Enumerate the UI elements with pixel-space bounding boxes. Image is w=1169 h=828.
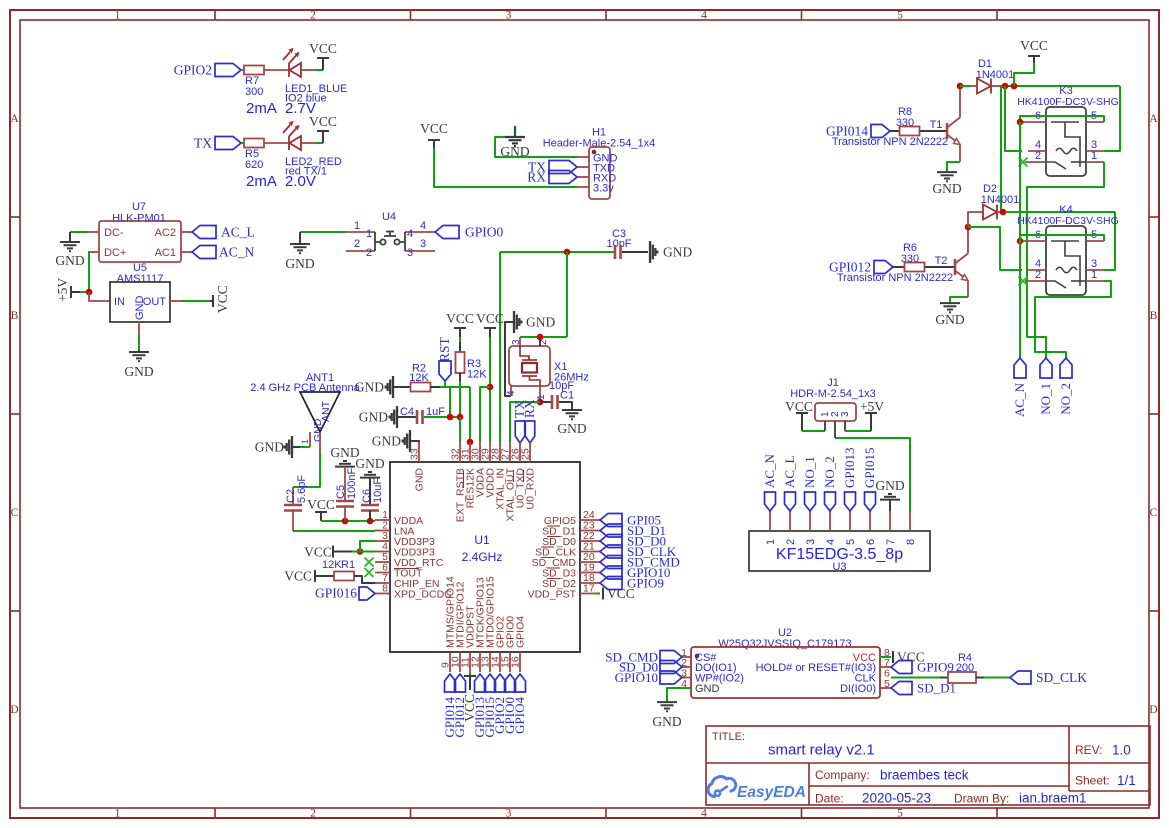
svg-text:W25Q32JVSSIQ_C179173: W25Q32JVSSIQ_C179173 bbox=[718, 638, 851, 650]
wire bbox=[293, 446, 300, 448]
svg-text:1/1: 1/1 bbox=[1117, 773, 1136, 788]
junction bbox=[367, 518, 374, 525]
svg-text:4: 4 bbox=[701, 10, 707, 22]
crystal X1 bbox=[509, 346, 550, 386]
junction bbox=[86, 289, 93, 296]
wire bbox=[398, 416, 417, 418]
LED LED2_RED bbox=[283, 122, 301, 150]
junction bbox=[537, 399, 544, 406]
wire R2 row bbox=[440, 386, 470, 388]
power VCC U2 bbox=[892, 651, 894, 663]
svg-text:5: 5 bbox=[897, 10, 903, 22]
wire VDDA row bbox=[321, 520, 375, 522]
svg-text:3: 3 bbox=[506, 808, 512, 820]
svg-text:GPIO4: GPIO4 bbox=[512, 697, 527, 734]
wire K3 pin1 to NO_1 bbox=[1027, 162, 1104, 358]
svg-text:C: C bbox=[1150, 507, 1158, 519]
wire collector T2 bbox=[967, 227, 969, 254]
svg-text:1N4001: 1N4001 bbox=[981, 194, 1020, 206]
wire bbox=[89, 292, 110, 301]
transistor T2 bbox=[955, 254, 968, 281]
wire bbox=[1014, 63, 1034, 86]
svg-text:1: 1 bbox=[115, 808, 121, 820]
svg-text:VCC: VCC bbox=[462, 694, 477, 722]
wire RST node down bbox=[449, 387, 451, 417]
svg-text:REV:: REV: bbox=[1075, 743, 1103, 757]
wire bbox=[411, 441, 419, 443]
svg-text:1: 1 bbox=[1091, 269, 1097, 281]
svg-text:GND: GND bbox=[355, 456, 384, 471]
svg-text:1: 1 bbox=[354, 220, 360, 232]
U1 bottom pin stubs bbox=[450, 652, 520, 672]
net flag GPIO0 bbox=[505, 674, 516, 692]
svg-text:U4: U4 bbox=[382, 211, 396, 223]
wire bbox=[424, 416, 460, 418]
U1 top pin stubs bbox=[419, 442, 530, 462]
wire bbox=[845, 430, 871, 432]
svg-text:1: 1 bbox=[115, 10, 121, 22]
junction bbox=[467, 439, 474, 446]
wire bbox=[489, 337, 491, 442]
svg-text:U0_RXD: U0_RXD bbox=[525, 468, 537, 510]
svg-text:GND: GND bbox=[414, 468, 426, 492]
svg-text:1: 1 bbox=[300, 439, 310, 444]
wire bbox=[925, 266, 955, 268]
wire D2 row bbox=[1005, 211, 1115, 213]
wire J1 pin2 to U3 pin8 bbox=[835, 438, 910, 512]
svg-text:5: 5 bbox=[845, 539, 857, 545]
net flag GPI013 bbox=[845, 492, 856, 511]
svg-text:4: 4 bbox=[506, 390, 517, 396]
junction bbox=[1017, 119, 1024, 126]
svg-text:+5V: +5V bbox=[55, 278, 70, 302]
power VCC bbox=[210, 300, 213, 302]
wire bbox=[505, 322, 513, 396]
svg-text:A: A bbox=[10, 113, 19, 125]
svg-text:3: 3 bbox=[805, 539, 817, 545]
crystal internals bbox=[520, 346, 540, 386]
svg-text:10uF: 10uF bbox=[372, 478, 384, 503]
svg-text:AC_N: AC_N bbox=[1012, 382, 1027, 417]
net flag GPI05 bbox=[600, 514, 622, 527]
svg-text:AMS1117: AMS1117 bbox=[117, 273, 164, 285]
wire DC+ to +5V node bbox=[88, 252, 89, 292]
wire bbox=[394, 386, 411, 388]
wire AC_N vertical bbox=[1019, 122, 1021, 358]
svg-text:Company:: Company: bbox=[815, 768, 870, 782]
net flag GPIO4 bbox=[515, 674, 526, 692]
svg-text:GND: GND bbox=[359, 410, 388, 425]
IC U7 HLK-PM01 bbox=[99, 221, 181, 262]
junction bbox=[357, 548, 364, 555]
wire bbox=[301, 69, 315, 71]
svg-text:EasyEDA: EasyEDA bbox=[737, 784, 806, 801]
wire bbox=[459, 373, 461, 381]
junction bbox=[1000, 209, 1007, 216]
wire bbox=[301, 142, 315, 144]
net flag GPI014 bbox=[445, 674, 456, 692]
wire bbox=[559, 402, 572, 408]
svg-text:R1: R1 bbox=[341, 559, 355, 571]
wire U2 VCC bbox=[880, 656, 891, 658]
power VCC VDD_PST bbox=[595, 593, 600, 595]
wire bbox=[241, 142, 244, 144]
wire bbox=[354, 576, 375, 583]
svg-text:D: D bbox=[10, 704, 18, 716]
overline marks U1 pin names bbox=[394, 470, 560, 579]
ground bbox=[60, 232, 80, 251]
junction bbox=[342, 518, 349, 525]
svg-text:2: 2 bbox=[1035, 269, 1041, 281]
net flag AC_N bbox=[765, 492, 776, 511]
wire collector T1 bbox=[959, 86, 961, 118]
net flag GPI015 bbox=[865, 492, 876, 511]
svg-text:25: 25 bbox=[520, 448, 532, 460]
wire bbox=[181, 300, 210, 302]
svg-text:2.4GHz: 2.4GHz bbox=[462, 550, 503, 564]
wire ANT to C2/LNA bbox=[293, 451, 320, 487]
junction bbox=[457, 414, 464, 421]
junction bbox=[487, 384, 494, 391]
svg-text:GND: GND bbox=[55, 253, 84, 268]
svg-text:12K: 12K bbox=[467, 369, 487, 381]
svg-text:U1: U1 bbox=[474, 533, 490, 547]
net flag SD_D1 bbox=[600, 524, 622, 537]
svg-text:17: 17 bbox=[583, 583, 595, 595]
U1 right pin stubs bbox=[580, 520, 600, 594]
pin stub OUT bbox=[170, 300, 181, 302]
wire bbox=[80, 291, 89, 293]
pin stubs U7 bbox=[88, 232, 192, 252]
svg-text:6: 6 bbox=[865, 539, 877, 545]
resistor R7 bbox=[244, 66, 264, 75]
net flag SD_D1 bbox=[891, 682, 912, 695]
net flag NO_1 bbox=[805, 492, 816, 511]
wire bbox=[893, 266, 904, 268]
svg-text:3: 3 bbox=[407, 247, 413, 259]
net flag NO_2 bbox=[1060, 358, 1072, 378]
svg-text:AC_N: AC_N bbox=[219, 245, 255, 260]
net flag NO_1 bbox=[1040, 358, 1052, 378]
ground T2 bbox=[940, 303, 960, 312]
svg-text:GND: GND bbox=[875, 478, 904, 493]
svg-text:AC_L: AC_L bbox=[782, 455, 797, 488]
svg-text:12K: 12K bbox=[322, 559, 342, 571]
junction bbox=[1011, 83, 1018, 90]
net flag GPIO2 bbox=[495, 674, 506, 692]
ground bbox=[650, 241, 657, 263]
no-connect X K3 pin2 bbox=[1019, 158, 1028, 167]
ground bbox=[360, 472, 380, 478]
ground crystal case bbox=[514, 311, 521, 333]
wire bbox=[976, 677, 984, 679]
svg-text:ANT: ANT bbox=[320, 400, 332, 422]
ground bbox=[335, 461, 355, 467]
net flag GPIO0 bbox=[435, 226, 459, 239]
net flag GPIO9 bbox=[600, 577, 622, 590]
svg-text:AC_L: AC_L bbox=[221, 225, 255, 240]
svg-text:GND: GND bbox=[663, 245, 692, 260]
svg-text:1: 1 bbox=[366, 228, 372, 240]
svg-text:RX: RX bbox=[527, 170, 546, 185]
svg-text:3.3v: 3.3v bbox=[593, 183, 614, 195]
wire to pin32 bbox=[459, 417, 461, 442]
wire K3 coil right bbox=[1104, 86, 1120, 151]
U2 pin stubs right bbox=[880, 667, 891, 688]
svg-text:2: 2 bbox=[366, 247, 372, 259]
svg-text:C1: C1 bbox=[560, 390, 574, 402]
svg-text:VCC: VCC bbox=[215, 285, 230, 313]
net flag GPI013 bbox=[475, 674, 486, 692]
svg-text:C4: C4 bbox=[400, 406, 414, 418]
svg-text:100nF: 100nF bbox=[346, 468, 358, 499]
wire bbox=[802, 430, 825, 432]
svg-text:Date:: Date: bbox=[815, 792, 844, 806]
U1 left pin stubs bbox=[375, 520, 390, 594]
IC U1 2.4GHz bbox=[390, 462, 580, 652]
junction bbox=[1017, 238, 1024, 245]
junction bbox=[564, 249, 571, 256]
svg-text:GPI016: GPI016 bbox=[315, 586, 357, 601]
svg-text:VCC: VCC bbox=[1020, 38, 1048, 53]
ground bbox=[129, 350, 149, 361]
net flag AC_L bbox=[192, 226, 216, 239]
wire T2 to K4 coil left bbox=[968, 227, 1022, 270]
svg-text:TITLE:: TITLE: bbox=[712, 731, 745, 743]
junction bbox=[537, 334, 544, 341]
svg-text:NO_2: NO_2 bbox=[1058, 383, 1073, 415]
svg-text:GND: GND bbox=[355, 380, 384, 395]
svg-text:VCC: VCC bbox=[785, 399, 813, 414]
wire bbox=[315, 142, 323, 144]
svg-text:2.0V: 2.0V bbox=[285, 173, 316, 190]
svg-text:620: 620 bbox=[245, 159, 263, 171]
svg-text:VCC: VCC bbox=[476, 311, 504, 326]
wire bbox=[947, 162, 960, 172]
svg-text:RX: RX bbox=[522, 399, 537, 418]
net flag AC_N bbox=[192, 246, 216, 259]
svg-text:3: 3 bbox=[506, 10, 512, 22]
svg-text:braembes teck: braembes teck bbox=[880, 768, 969, 783]
svg-text:GND: GND bbox=[134, 296, 146, 321]
wire bbox=[430, 386, 440, 388]
svg-text:GND: GND bbox=[255, 440, 284, 455]
svg-text:GND: GND bbox=[285, 256, 314, 271]
svg-text:D: D bbox=[1149, 704, 1157, 716]
svg-text:2mA: 2mA bbox=[246, 173, 277, 190]
svg-text:2: 2 bbox=[785, 539, 797, 545]
resistor R5 bbox=[244, 139, 264, 148]
wire crystal top bbox=[520, 336, 567, 338]
svg-text:XPD_DCDC: XPD_DCDC bbox=[394, 589, 452, 601]
wire bbox=[968, 212, 983, 227]
svg-text:4: 4 bbox=[420, 220, 426, 232]
svg-text:VCC: VCC bbox=[420, 121, 448, 136]
wire bbox=[264, 69, 288, 71]
wire C3 node down to crystal bbox=[566, 252, 568, 337]
net flag NO_2 bbox=[825, 492, 836, 511]
svg-text:AC1: AC1 bbox=[155, 247, 176, 259]
wire bbox=[495, 137, 577, 157]
wire bbox=[960, 85, 971, 87]
svg-text:C: C bbox=[11, 507, 19, 519]
svg-text:Transistor NPN 2N2222: Transistor NPN 2N2222 bbox=[837, 272, 953, 284]
svg-text:GND: GND bbox=[935, 312, 964, 327]
svg-text:7: 7 bbox=[885, 539, 897, 545]
J1 pin stubs bbox=[825, 421, 845, 438]
svg-text:3: 3 bbox=[420, 238, 426, 250]
svg-text:+5V: +5V bbox=[860, 399, 884, 414]
junction bbox=[957, 83, 964, 90]
wire bbox=[622, 251, 648, 253]
svg-text:NO_1: NO_1 bbox=[802, 456, 817, 488]
svg-text:DC+: DC+ bbox=[104, 247, 126, 259]
svg-text:1: 1 bbox=[1091, 150, 1097, 162]
U3 pin stubs bbox=[770, 511, 910, 531]
wire emitter T1 bbox=[959, 145, 961, 163]
wire bbox=[480, 387, 490, 442]
svg-text:3: 3 bbox=[511, 339, 522, 345]
svg-text:IN: IN bbox=[114, 296, 125, 308]
svg-text:5: 5 bbox=[897, 808, 903, 820]
EasyEDA logo bbox=[708, 777, 736, 797]
wire K3 pin5 loop bbox=[1020, 116, 1104, 122]
svg-text:T1: T1 bbox=[930, 119, 943, 131]
net flag SD_CLK bbox=[1010, 671, 1031, 684]
svg-text:GPIO10: GPIO10 bbox=[615, 670, 658, 685]
wire row to pin31 bbox=[469, 387, 471, 442]
svg-text:GPIO2: GPIO2 bbox=[174, 63, 212, 78]
wire bbox=[950, 297, 968, 303]
net flag GPI015 bbox=[485, 674, 496, 692]
net flag SD_CLK bbox=[600, 545, 622, 558]
svg-text:SD_CLK: SD_CLK bbox=[1036, 670, 1087, 685]
svg-text:1: 1 bbox=[765, 539, 777, 545]
junction bbox=[965, 224, 972, 231]
wire bbox=[300, 231, 346, 233]
no-connect X pin6 bbox=[365, 568, 374, 577]
svg-text:B: B bbox=[11, 310, 19, 322]
net flag SD_D0 bbox=[600, 535, 622, 548]
svg-text:T2: T2 bbox=[935, 255, 948, 267]
IC U5 AMS1117 bbox=[110, 282, 170, 322]
svg-text:AC_N: AC_N bbox=[762, 453, 777, 488]
wire emitter T2 bbox=[967, 281, 969, 298]
junction bbox=[1002, 83, 1009, 90]
svg-text:VCC: VCC bbox=[446, 311, 474, 326]
svg-text:HLK-PM01: HLK-PM01 bbox=[112, 213, 166, 225]
svg-text:GPI013: GPI013 bbox=[842, 448, 857, 488]
wire XTAL_IN to C3 bbox=[500, 251, 614, 253]
svg-text:GPIO0: GPIO0 bbox=[465, 225, 504, 240]
svg-text:2: 2 bbox=[1035, 150, 1041, 162]
wire K4 pin5 loop bbox=[1020, 235, 1104, 241]
junction bbox=[447, 414, 454, 421]
wire CLK to R4 bbox=[891, 677, 940, 679]
transistor T1 bbox=[947, 118, 960, 145]
wire D1 row bbox=[1005, 85, 1120, 87]
svg-text:1N4001: 1N4001 bbox=[976, 69, 1015, 81]
svg-text:U3: U3 bbox=[832, 561, 846, 573]
svg-text:8: 8 bbox=[382, 583, 388, 595]
ground H1 bbox=[514, 126, 516, 137]
svg-text:4: 4 bbox=[825, 539, 837, 545]
svg-text:GND: GND bbox=[526, 315, 555, 330]
svg-text:VCC: VCC bbox=[307, 497, 335, 512]
U2 pin stubs left bbox=[682, 657, 691, 678]
net flag AC_L bbox=[785, 492, 796, 511]
wire bbox=[70, 231, 88, 233]
svg-text:16: 16 bbox=[510, 656, 522, 668]
power VCC pin11 bbox=[469, 672, 471, 676]
wire bbox=[264, 142, 288, 144]
svg-text:Sheet:: Sheet: bbox=[1075, 774, 1110, 788]
wire bbox=[434, 148, 577, 187]
wire bbox=[138, 334, 140, 350]
svg-text:GND: GND bbox=[932, 181, 961, 196]
svg-text:ian.braem1: ian.braem1 bbox=[1019, 791, 1087, 806]
wire bbox=[352, 551, 375, 553]
wire crystal pin1 to XTAL_OUT bbox=[510, 402, 540, 442]
svg-text:2: 2 bbox=[354, 238, 360, 250]
wire K3 coil left bbox=[1005, 86, 1022, 151]
wire C2 to LNA bbox=[293, 530, 375, 532]
wire bbox=[890, 130, 899, 132]
svg-text:B: B bbox=[1150, 310, 1158, 322]
svg-text:NO_1: NO_1 bbox=[1038, 383, 1053, 415]
svg-text:Transistor NPN 2N2222: Transistor NPN 2N2222 bbox=[832, 136, 948, 148]
svg-text:10pF: 10pF bbox=[606, 238, 631, 250]
svg-text:RST: RST bbox=[437, 336, 452, 362]
svg-text:OUT: OUT bbox=[143, 296, 167, 308]
wire bbox=[920, 130, 947, 132]
svg-text:VDD_PST: VDD_PST bbox=[528, 589, 577, 601]
LED LED1_BLUE bbox=[283, 49, 301, 77]
svg-text:2: 2 bbox=[310, 808, 316, 820]
no-connect X pin5 bbox=[365, 558, 374, 567]
no-connect X K4 pin2 bbox=[1019, 277, 1028, 286]
svg-text:8: 8 bbox=[905, 539, 917, 545]
svg-text:GPIO4: GPIO4 bbox=[515, 616, 527, 648]
svg-text:33: 33 bbox=[409, 448, 421, 460]
wire VCC feed down to D2 bbox=[1000, 86, 1002, 212]
svg-text:GND: GND bbox=[124, 364, 153, 379]
svg-text:2: 2 bbox=[310, 10, 316, 22]
wire bbox=[315, 69, 323, 71]
wire bbox=[241, 69, 244, 71]
wire bbox=[444, 381, 446, 387]
wire K4 coil right bbox=[1104, 212, 1115, 270]
svg-text:2020-05-23: 2020-05-23 bbox=[862, 791, 931, 806]
pin stubs ANT1 bbox=[309, 432, 311, 447]
svg-text:DC-: DC- bbox=[104, 227, 124, 239]
ground bbox=[562, 408, 582, 419]
net flag AC_N bbox=[1014, 358, 1026, 378]
svg-text:GND: GND bbox=[557, 421, 586, 436]
ground U2 bbox=[657, 702, 677, 711]
svg-text:2mA: 2mA bbox=[246, 100, 277, 117]
ground bbox=[290, 232, 310, 253]
ground bbox=[285, 436, 292, 458]
svg-text:5: 5 bbox=[884, 678, 890, 690]
svg-text:VCC: VCC bbox=[309, 41, 337, 56]
wire XTAL_IN vertical bbox=[499, 252, 501, 442]
svg-text:A: A bbox=[1149, 113, 1158, 125]
net flag SD_CMD bbox=[600, 556, 622, 569]
pin stub GND bbox=[138, 322, 140, 334]
svg-text:smart relay v2.1: smart relay v2.1 bbox=[768, 742, 875, 759]
svg-text:3: 3 bbox=[840, 411, 851, 417]
